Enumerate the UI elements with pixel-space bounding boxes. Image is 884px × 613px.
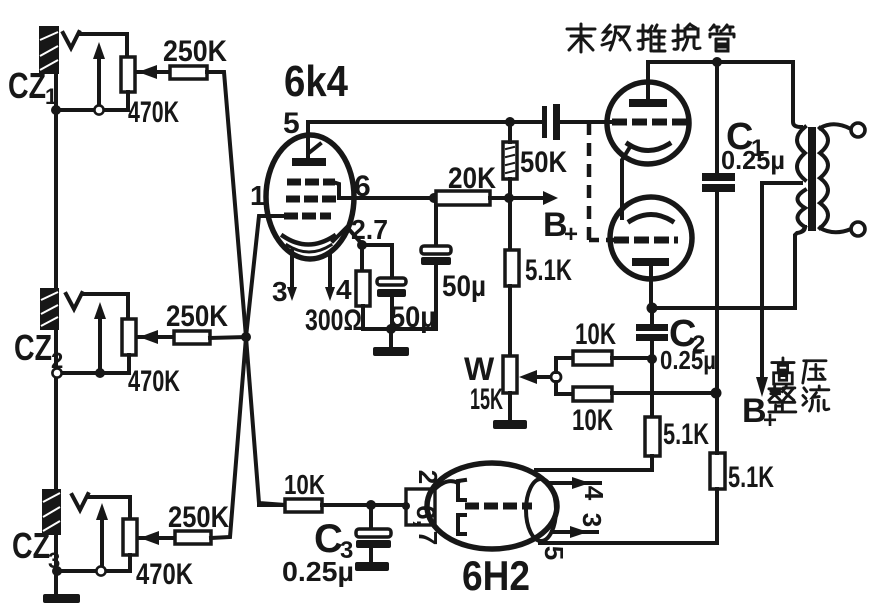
svg-text:250K: 250K	[163, 35, 227, 68]
anode V1 bar	[629, 99, 667, 107]
node CZ2 arrow	[95, 368, 105, 378]
pin box 6H2	[406, 489, 435, 525]
resistor 250K (CZ1) body	[170, 66, 207, 79]
svg-text:250K: 250K	[168, 501, 229, 534]
svg-text:0.25µ: 0.25µ	[721, 145, 785, 175]
heater pin 4 arrow (6H2)	[550, 481, 600, 485]
wire 10K upper to C2 node	[612, 356, 650, 360]
wire cathode ground rail	[363, 327, 436, 331]
wire V2 plate lead down	[649, 266, 653, 308]
wire 5.1K a bottom to 6H2	[536, 456, 652, 470]
wire CZ3 bottom	[57, 569, 130, 573]
wire CZ1 pot bottom	[126, 92, 130, 110]
resistor 250K (CZ3) body	[175, 531, 211, 544]
resistor 50K body	[503, 142, 517, 179]
wire 5.1K b top	[715, 393, 719, 453]
resistor 300ohm body	[356, 271, 370, 306]
label title CJK: tui (push)	[638, 25, 665, 51]
heater pin 3 arrow	[290, 251, 294, 289]
node top wire / 50K	[505, 117, 515, 127]
wire cathode node down	[360, 245, 364, 271]
svg-text:15K: 15K	[470, 383, 503, 416]
arrow CZ3 up	[100, 513, 104, 571]
svg-text:3: 3	[272, 276, 288, 307]
wire cathode lead to 2.7 node	[333, 227, 362, 244]
svg-text:470K: 470K	[136, 558, 193, 591]
capacitor C3 stub	[369, 505, 373, 529]
pickup CZ1	[39, 26, 59, 74]
transformer primary winding	[797, 127, 805, 180]
potentiometer 470K (CZ3) body	[123, 519, 137, 555]
wire screen bypass top	[434, 198, 438, 246]
wire 6H2 bottom rail	[540, 541, 717, 545]
svg-text:CZ: CZ	[12, 525, 50, 566]
svg-text:CZ: CZ	[14, 327, 52, 368]
wire 250K CZ2 to mix node	[210, 337, 245, 338]
pickup CZ3	[42, 489, 61, 535]
node C2 / 10K upper	[647, 354, 657, 364]
resistor 5.1K (upper) body	[505, 250, 519, 286]
capacitor C2 stub	[650, 308, 654, 324]
wire transformer primary top lead	[793, 62, 801, 127]
svg-text:20K: 20K	[448, 162, 496, 195]
wire 50K top	[508, 122, 512, 142]
wire box to plate curve	[434, 481, 458, 490]
svg-text:10K: 10K	[284, 469, 325, 500]
potentiometer 470K (CZ2) body	[122, 319, 136, 355]
svg-text:470K: 470K	[128, 365, 180, 398]
label CJK: gao (high)	[772, 358, 794, 384]
svg-text:50K: 50K	[520, 146, 567, 179]
wire ground stub	[389, 329, 393, 347]
node mixer X	[241, 332, 251, 342]
resistor 5.1K (feedback a) body	[645, 417, 660, 456]
node CZ1 bus	[51, 105, 61, 115]
cathode 6K4 arcs	[283, 236, 334, 245]
plate bracket upper (6H2)	[458, 480, 465, 500]
svg-text:470K: 470K	[128, 96, 179, 129]
cathode V1 arc	[628, 144, 669, 151]
node top rail / C1	[712, 57, 722, 67]
resistor 20K body	[436, 191, 490, 205]
wiper W arrow	[534, 375, 552, 379]
grid bracket to row 2	[333, 182, 339, 198]
wire plate V2 rail to transformer bottom	[651, 306, 795, 310]
svg-text:300Ω: 300Ω	[305, 304, 362, 337]
svg-text:6k4: 6k4	[284, 57, 348, 106]
node 6H2 box input	[402, 502, 410, 510]
capacitor 50u (cathode) plates	[377, 278, 406, 285]
label title CJK: mo (end)	[567, 24, 595, 52]
svg-text:4: 4	[336, 274, 352, 305]
wire dashed grid tie	[587, 122, 592, 240]
node CZ1 arrow (open)	[94, 105, 103, 114]
label title CJK: wan (pull)	[673, 24, 700, 50]
wire 20K to node	[490, 196, 509, 200]
polarity mark V (CZ1)	[63, 32, 79, 48]
terminal secondary bottom	[851, 222, 865, 236]
capacitor coupling bars	[542, 106, 547, 138]
svg-text:6H2: 6H2	[462, 552, 530, 599]
cathode V2 arc	[630, 215, 672, 222]
resistor 5.1K (feedback b) body	[710, 453, 725, 489]
wire cathode node right	[362, 245, 392, 278]
tube V2 lower envelope	[610, 197, 692, 279]
potentiometer 470K (CZ1) body	[121, 57, 135, 92]
node cathode 2.7	[357, 240, 367, 250]
tube 6K4 envelope	[266, 135, 354, 259]
node right 5.1K junction	[711, 388, 722, 399]
wire secondary bottom lead	[820, 228, 851, 232]
svg-text:5.1K: 5.1K	[663, 418, 709, 451]
svg-text:C: C	[314, 517, 343, 561]
capacitor C1 plates	[702, 173, 735, 181]
svg-text:250K: 250K	[166, 300, 228, 333]
wire C1 bottom long	[715, 192, 719, 393]
grid row 3 (6K4) control grid pin 1	[284, 213, 331, 220]
wire 50u screen bottom	[434, 265, 438, 329]
wire wiper to 10K pair bracket	[556, 358, 573, 372]
anode V2 bar	[632, 258, 669, 266]
wire mix to 10K input	[257, 503, 261, 505]
wire coupling cap to grids	[560, 120, 622, 124]
wire 6K4 plate top	[308, 120, 543, 124]
node CZ3 bus	[52, 566, 62, 576]
anode 6K4 plate bar	[292, 158, 326, 166]
wire 250K CZ3 to mix node diagonal up to 6K4 grid pin 1	[211, 216, 284, 538]
wire CZ2 pot bottom	[127, 355, 131, 373]
wire V1 plate lead	[646, 62, 650, 99]
wiper wire CZ2	[138, 335, 174, 339]
capacitor 50u (screen) plates	[421, 246, 451, 254]
svg-text:5: 5	[539, 546, 569, 560]
svg-text:2.7: 2.7	[351, 214, 388, 245]
label title CJK: guan (tube)	[710, 25, 734, 51]
node pin6/50u junction	[429, 193, 439, 203]
grid 6H2 dashes	[465, 503, 532, 510]
svg-text:50µ: 50µ	[442, 270, 486, 303]
wire CZ3 pot bottom	[128, 555, 132, 571]
wiper wire CZ1	[137, 70, 170, 74]
resistor 250K (CZ2) body	[174, 331, 210, 344]
grid row 1 (6K4)	[287, 179, 335, 186]
wire anode lead pin5	[306, 122, 310, 158]
wire CZ2 bottom	[57, 371, 129, 375]
wire 5.1K b bottom	[715, 489, 719, 543]
svg-text:+: +	[564, 221, 578, 248]
svg-text:10K: 10K	[575, 318, 616, 351]
label CJK: ya (voltage)	[803, 361, 826, 383]
ground left bus	[43, 594, 80, 603]
resistor 10K (upper) body	[573, 351, 612, 365]
wire V1 cathode to V2	[622, 147, 630, 218]
capacitor C1 line top	[715, 62, 719, 173]
svg-text:5.1K: 5.1K	[728, 461, 774, 494]
ground 6K4 cathode	[373, 347, 409, 356]
wire CZ1 bottom	[56, 108, 128, 112]
node C3	[366, 500, 376, 510]
node screen supply	[504, 193, 514, 203]
arrow CZ2 up	[98, 312, 102, 373]
wire C2 bottom	[650, 341, 654, 417]
heater pin 4 arrow	[328, 253, 332, 289]
node CZ3 arrow (open)	[96, 566, 105, 575]
tube 6H2 inner end ellipse	[526, 479, 556, 541]
wire transformer primary bottom lead	[795, 227, 805, 308]
potentiometer W 15K body	[503, 356, 517, 393]
svg-text:3: 3	[577, 513, 607, 527]
wire left input bus	[54, 28, 58, 593]
arrow B+ down (center tap to HV rectifier)	[756, 377, 768, 397]
wire 250K CZ1 to mix node diagonal	[207, 72, 285, 505]
svg-text:5.1K: 5.1K	[525, 254, 572, 287]
node ground rail	[386, 324, 396, 334]
wire 50K bottom	[508, 179, 512, 198]
plate bracket lower (6H2)	[458, 515, 465, 534]
arrow CZ1 up	[97, 52, 101, 110]
wire center tap	[762, 183, 801, 377]
arrow B+ right	[509, 196, 545, 200]
wire C3 bottom stub	[369, 548, 373, 562]
wire W pot bottom stub	[508, 393, 512, 420]
svg-text:CZ: CZ	[8, 65, 46, 106]
grid V1 dashes	[612, 119, 688, 126]
node V2 plate rail	[647, 303, 658, 314]
wire 10K to C3 node	[322, 503, 406, 507]
wire secondary top lead	[820, 124, 851, 129]
svg-text:1: 1	[250, 180, 266, 211]
tube 6H2 envelope	[427, 463, 557, 549]
node W wiper (open)	[551, 372, 561, 382]
capacitor C2 plates	[636, 324, 668, 331]
label CJK: zheng (rectify-1)	[769, 386, 796, 412]
svg-text:0.25µ: 0.25µ	[660, 345, 716, 375]
terminal secondary top	[851, 123, 865, 137]
node CZ2 bus (open)	[52, 368, 61, 377]
pickup CZ2	[40, 288, 59, 330]
polarity mark V (CZ2)	[66, 293, 82, 309]
wire 10K lower to right node	[612, 391, 716, 395]
resistor 10K (lower) body	[573, 387, 612, 401]
resistor 10K (6H2 input) body	[285, 499, 322, 512]
wire 5.1K to W pot	[508, 286, 512, 356]
wire CZ2 top	[83, 294, 128, 319]
wire 50u bottom	[390, 297, 394, 329]
wire pin6 to 20K	[339, 196, 436, 200]
wiper wire CZ3	[138, 536, 175, 540]
wire node to 5.1K (screen divider)	[508, 198, 512, 250]
svg-text:5: 5	[283, 107, 300, 140]
tube V1 upper envelope	[607, 82, 689, 164]
grid V2 dashes	[614, 237, 678, 244]
svg-text:W: W	[464, 351, 495, 387]
transformer core bars	[808, 127, 816, 231]
svg-text:0.25µ: 0.25µ	[282, 556, 354, 587]
svg-text:4: 4	[579, 486, 609, 501]
polarity mark V (CZ3)	[72, 494, 88, 510]
grid row 2 (6K4) screen	[286, 196, 337, 203]
capacitor C3 plates	[356, 529, 391, 537]
wire CZ3 top	[89, 497, 130, 519]
wire top rail to transformer	[648, 60, 793, 64]
wire CZ1 top	[80, 34, 127, 57]
svg-text:10K: 10K	[572, 404, 613, 437]
label CJK: liu (rectify-2)	[803, 386, 829, 411]
label title CJK: ji (stage)	[602, 25, 630, 50]
ground W pot	[493, 420, 527, 429]
transformer secondary winding	[820, 128, 828, 228]
ground C3	[355, 562, 389, 571]
heater pin 3 arrow (6H2)	[552, 530, 597, 534]
wire 300ohm bottom	[361, 306, 365, 329]
